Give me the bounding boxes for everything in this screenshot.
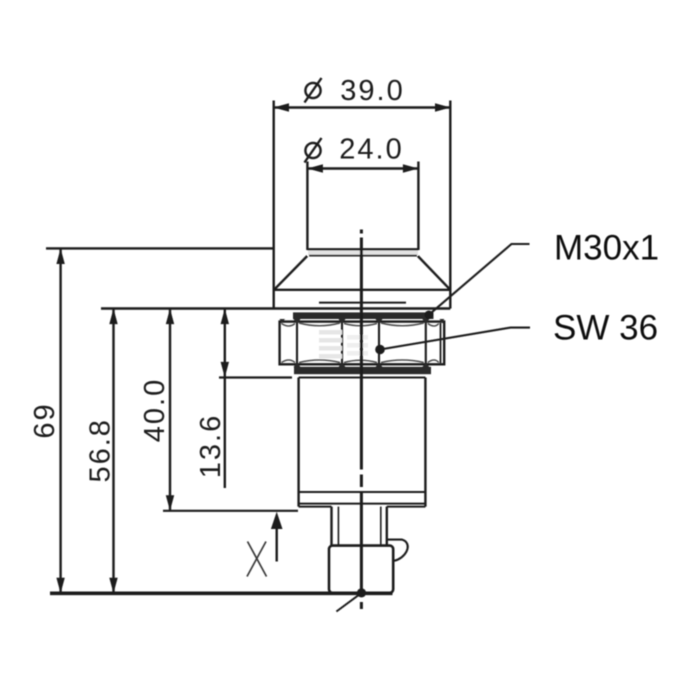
svg-text:40.0: 40.0 [139,378,171,442]
centerline main upper [360,238,363,470]
label M30x1 [554,229,659,268]
cone bottom line [274,289,450,291]
label SW 36 [553,309,658,348]
extension line ⌀39 left [273,101,275,309]
diameter symbol for 39.0 [305,78,322,103]
cone slant left [274,256,307,290]
neck inner right [380,507,382,546]
body top line [299,377,426,379]
hex nut facet line 1 [296,323,298,364]
leader SW 36 line [380,328,530,350]
hex nut bottom chamfer wedges [294,363,430,368]
body lower line 1 [299,491,426,493]
diagonal tick below block [336,593,361,612]
part top face chamfer band [308,249,418,255]
hex nut facet line 4 [425,323,427,364]
leader M30x1 line [429,244,530,315]
dimension text 13.6 (rotated) [195,414,227,478]
part top face inner line [309,255,417,257]
dimension line ⌀39 [274,106,451,108]
hex nut top facet arcs [282,323,439,326]
hex nut top chamfer wedges [280,319,445,324]
junction dot at block bottom [357,588,366,597]
arrowhead ⌀24 left [307,164,323,172]
dimension text ⌀ 39.0 [340,75,404,107]
dimension line ⌀24 [307,167,418,169]
diameter symbol for 24.0 [305,138,322,163]
thread relief line [319,302,406,304]
hex nut faint thread texture [319,330,368,359]
X arrow line [276,528,278,562]
body cylinder right edge [424,378,426,507]
cable ear hook [388,540,408,561]
flange bottom line [274,307,450,310]
extension line ⌀24 right [417,162,419,251]
connector block [329,546,393,593]
cone slant right [418,256,451,290]
leader SW 36 dot [375,345,385,355]
hex nut facet line 3 [378,323,380,364]
dimension line 40.0 [169,309,171,511]
X surface mark [247,542,267,577]
svg-text:SW 36: SW 36 [553,309,658,348]
reference line mid (56.8/40/13.6 top, y=308.5) [101,307,274,310]
leader M30x1 dot [425,311,434,320]
dimension line 69 [59,248,61,593]
neck outer left [330,507,332,546]
body lower line 2 [299,503,426,505]
neck inner left [337,507,339,546]
hex nut right double edge [440,323,442,363]
hex nut bottom facet arcs [282,360,439,363]
svg-text:56.8: 56.8 [85,418,117,482]
body bottom face right [387,506,426,508]
dimension text 56.8 (rotated) [85,418,117,482]
svg-text:24.0: 24.0 [339,133,403,165]
svg-text:M30x1: M30x1 [554,229,659,268]
svg-text:13.6: 13.6 [195,414,227,478]
svg-text:69: 69 [29,402,61,438]
reference line bottom (y=593.5, thick) [50,591,393,595]
reference line 40 bottom (y=510.5) [163,510,298,512]
hex nut facet line 2 [341,323,343,364]
centerline dash top dot [360,230,363,234]
dimension line 13.6 [224,309,226,489]
dimension text ⌀ 24.0 [339,133,403,165]
hex nut outline [280,322,445,365]
reference line 13.6 bottom (y=377.5) [219,376,292,378]
extension line ⌀39 right [449,101,451,309]
washer 2 (below nut) [294,367,431,374]
dimension text 69 (rotated) [29,402,61,438]
centerline main lower [360,491,363,593]
dimension line 56.8 [112,309,114,594]
body bottom face left [299,506,332,508]
arrowhead ⌀39 left [274,103,290,111]
arrowhead ⌀24 right [403,164,419,172]
body cylinder left edge [297,378,299,507]
neck outer right [386,507,388,546]
arrowhead ⌀39 right [435,103,451,111]
extension line ⌀24 left [306,162,308,251]
washer 1 (gasket under flange) [293,312,434,319]
X arrowhead [271,512,283,529]
part top face outer line [307,248,418,250]
centerline short dash [360,475,363,488]
svg-text:39.0: 39.0 [340,75,404,107]
reference line top (69 dim, y=248.4) [46,247,274,249]
centerline bottom dash [360,602,363,609]
dimension text 40.0 (rotated) [139,378,171,442]
